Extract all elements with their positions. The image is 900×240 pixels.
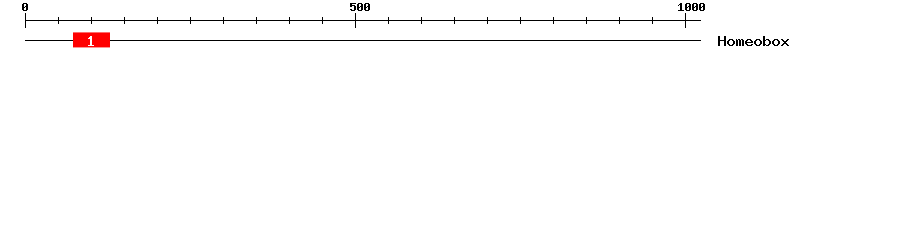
ruler major tick at 0 (x=25): [25, 13, 26, 28]
ruler major tick at 1000 (x=685): [685, 13, 686, 28]
domain box (red, hit 1): [73, 32, 110, 47]
ruler label 500: [350, 3, 370, 11]
ruler label 1000: [678, 3, 705, 11]
domain name label Homeobox: [718, 36, 789, 46]
ruler label 0: [22, 3, 28, 11]
sequence line: [25, 40, 701, 41]
ruler minor ticks every 50 units: [58, 17, 653, 24]
domain box number 1: [88, 36, 94, 46]
ruler axis line: [25, 20, 701, 21]
ruler major tick at 500 (x=355): [355, 13, 356, 28]
